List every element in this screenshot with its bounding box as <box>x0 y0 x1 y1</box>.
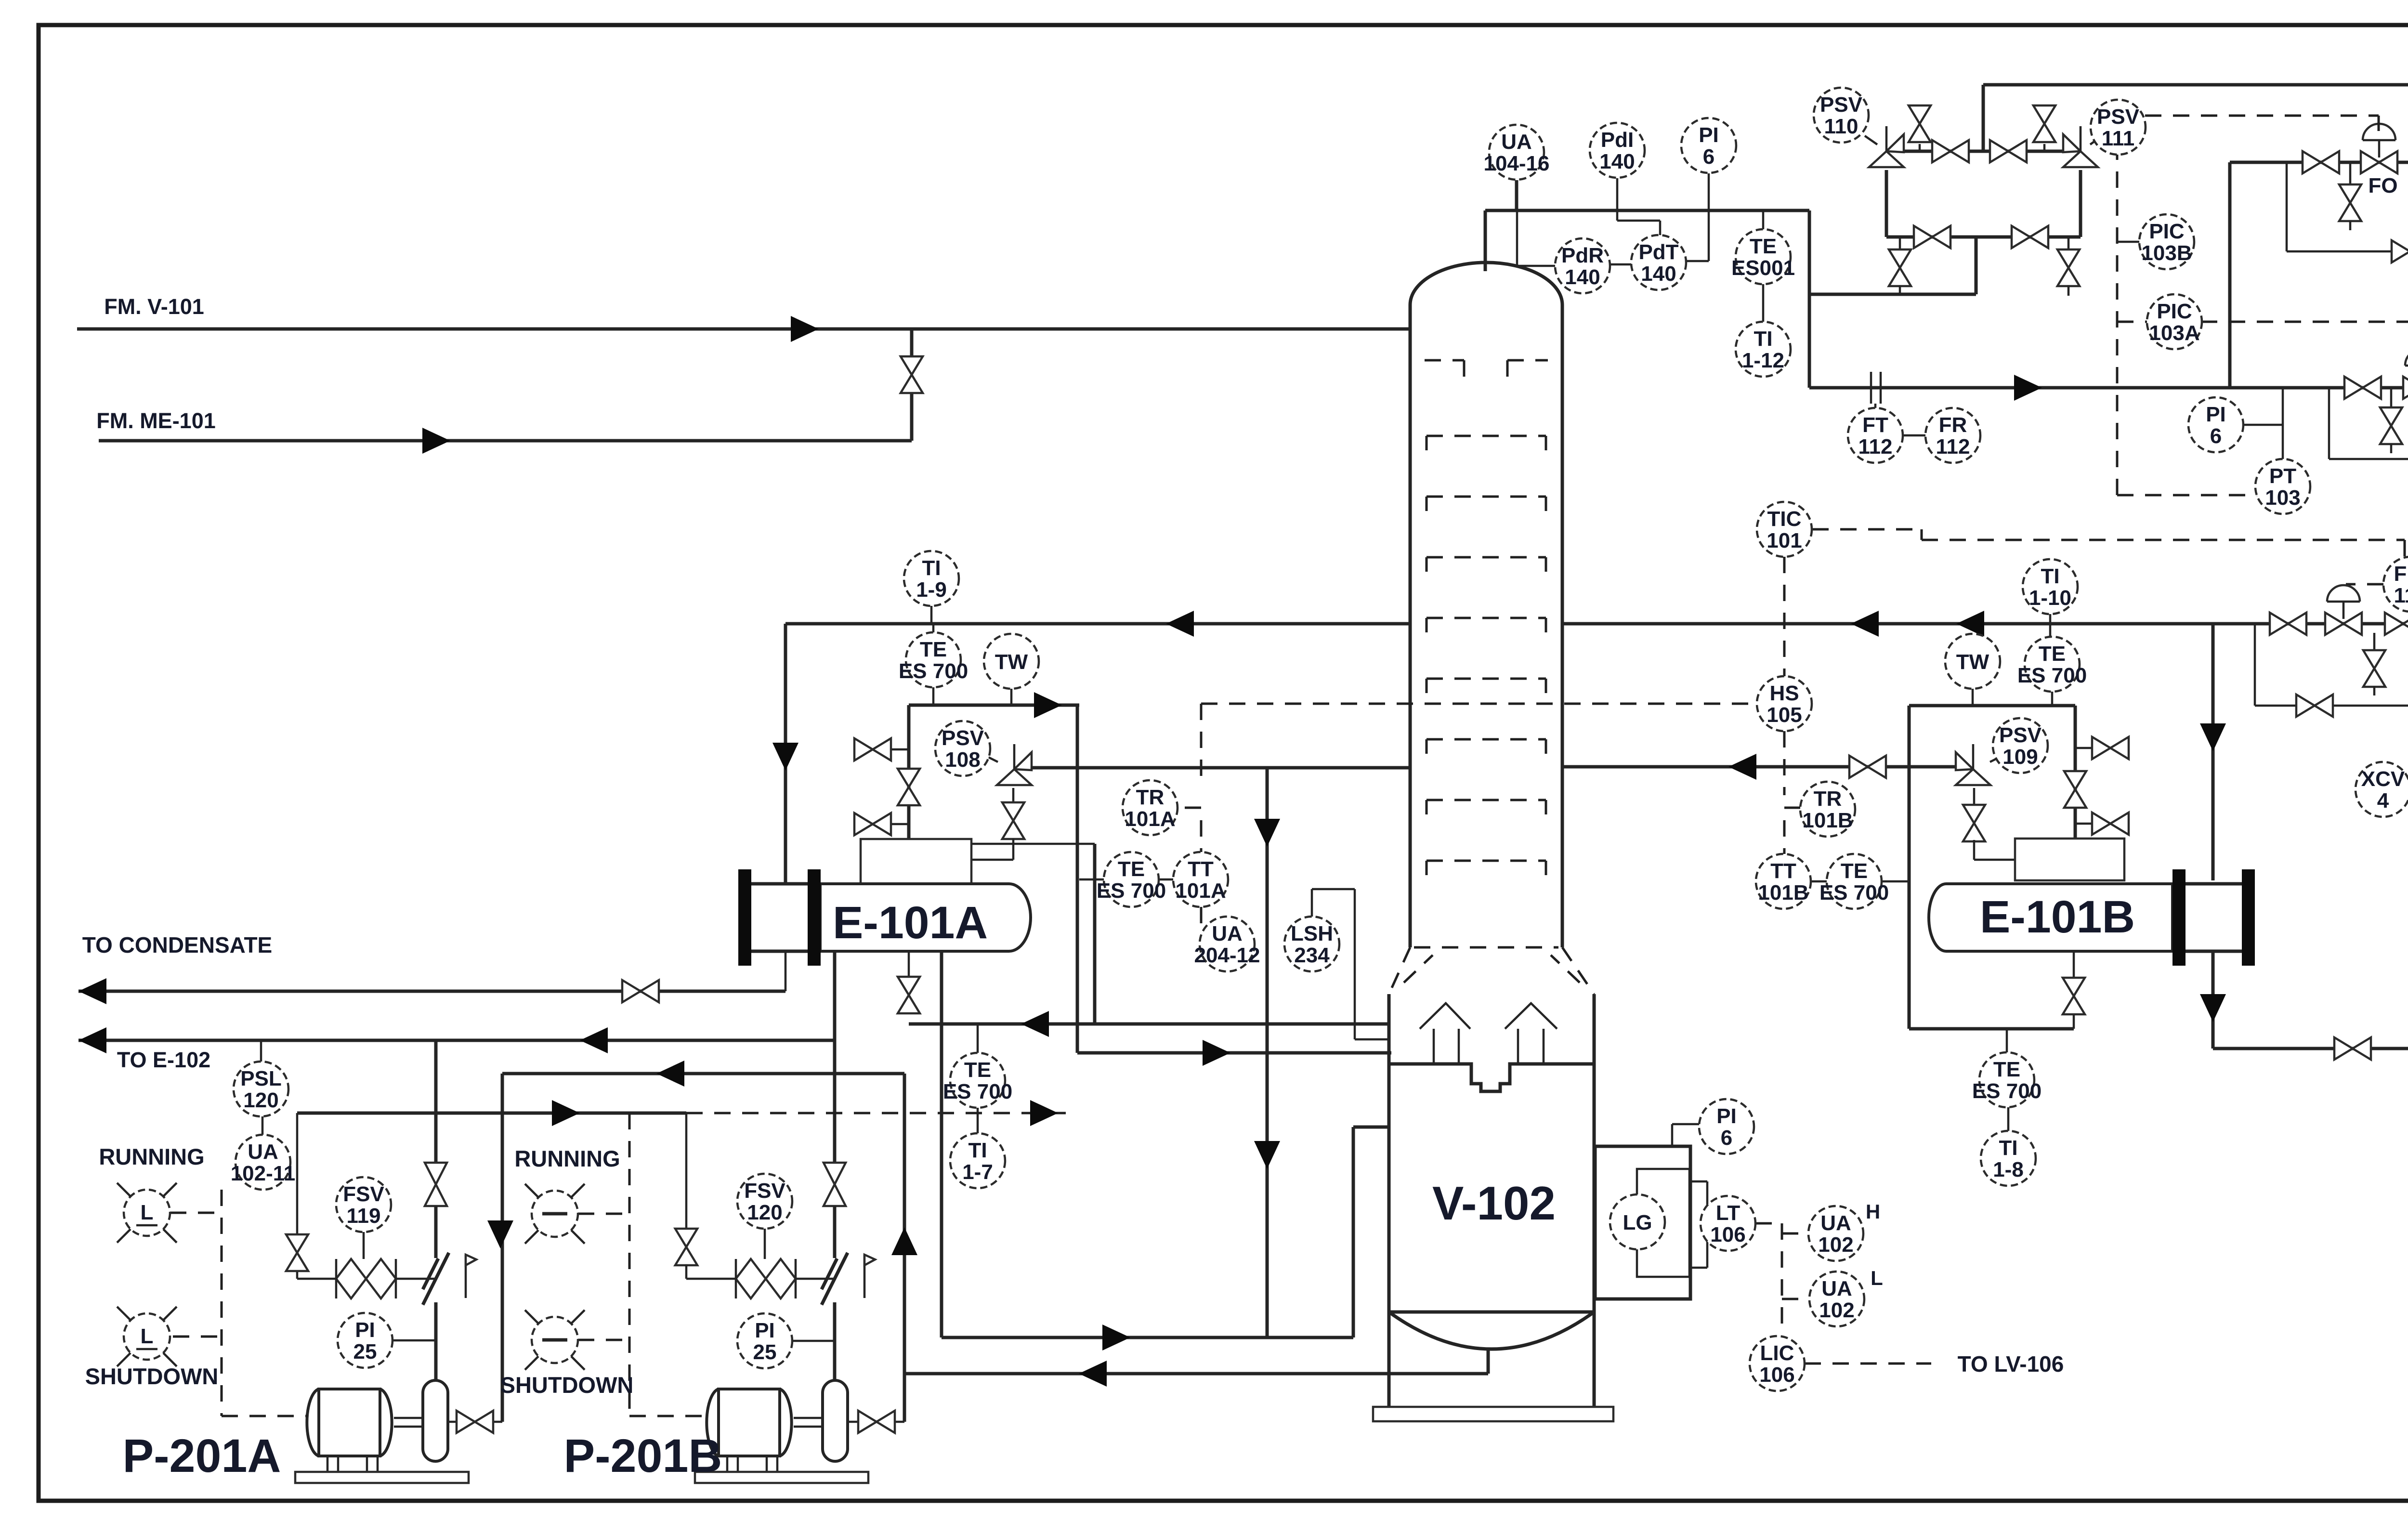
wire E-101A vapor drop <box>1093 844 1097 1024</box>
svg-text:110: 110 <box>1824 115 1858 138</box>
instrument UA 102 L <box>1809 1272 1864 1326</box>
instrument TIC 101 <box>1757 502 1812 557</box>
instrument PdT 140 <box>1631 235 1686 290</box>
wire FSV119 stub <box>363 1232 365 1259</box>
wire E-101A shell outlet drop <box>833 951 837 1040</box>
flow arrow discharge header <box>580 1027 608 1053</box>
svg-text:PSL: PSL <box>240 1067 282 1090</box>
wire P-201A discharge upper <box>434 1040 438 1163</box>
svg-text:TR: TR <box>1136 786 1165 809</box>
wire TE to loop right side <box>1882 880 1909 883</box>
wire suction header <box>502 1072 904 1075</box>
wire PI6 tap <box>2243 424 2283 426</box>
svg-text:PI: PI <box>1716 1104 1737 1128</box>
column tray 1 (dashed) <box>1426 436 1546 450</box>
wire E-101A channel condensate drop <box>785 951 787 991</box>
svg-text:1-10: 1-10 <box>2029 586 2071 610</box>
wire FSV120 run right <box>796 1278 835 1280</box>
wire E-101B loop top <box>1909 704 2075 708</box>
bypass valve FO <box>2392 240 2408 262</box>
wire FT112 stub <box>1874 404 1877 408</box>
control valve FO <box>2361 151 2397 173</box>
wire P-201B suction stub <box>849 1421 904 1423</box>
column V-102 bottom dish <box>1389 1312 1594 1349</box>
wire FIC vent tail <box>2373 686 2376 695</box>
wire PdI stub <box>1616 178 1619 221</box>
svg-text:TE: TE <box>964 1058 991 1082</box>
instrument PI 25 A <box>338 1313 393 1368</box>
wire E-101B loop right <box>2074 706 2077 839</box>
relief valve PSV-110 <box>1869 134 1904 167</box>
wire E-101B feed drop upper <box>2212 624 2215 880</box>
svg-text:102-11: 102-11 <box>231 1162 296 1185</box>
check valve P-201B <box>822 1253 848 1305</box>
suction valve P-201B <box>858 1411 895 1433</box>
instrument PIC 103B <box>2139 214 2194 269</box>
svg-text:ES 700: ES 700 <box>899 659 968 683</box>
svg-text:TE: TE <box>920 638 947 661</box>
wire PSV lower manifold <box>1886 236 2081 239</box>
wire P-201B suction drop <box>903 1074 906 1422</box>
flow arrow PSV108 drop 1 <box>1254 819 1280 847</box>
wire condensate line left <box>79 990 785 993</box>
svg-text:E-101B: E-101B <box>1980 892 2135 943</box>
control valve FO actuator <box>2363 124 2395 140</box>
wire TI1-10 stub <box>2049 614 2052 637</box>
valve FSV119 branch <box>286 1234 308 1271</box>
arrow to condensate left <box>79 978 106 1004</box>
svg-text:SHUTDOWN: SHUTDOWN <box>85 1364 219 1389</box>
svg-text:FIC: FIC <box>2394 562 2408 586</box>
instrument TE ES700 mid <box>1097 852 1166 907</box>
svg-text:ES 700: ES 700 <box>943 1080 1012 1103</box>
svg-text:LSH: LSH <box>1291 922 1333 945</box>
svg-text:106: 106 <box>1759 1363 1794 1387</box>
exchanger E-101A channel box <box>861 839 971 884</box>
vent valve E-101A 2 <box>854 813 891 835</box>
svg-text:PI: PI <box>355 1318 375 1342</box>
signal P-201A alarm wiring (dashed) <box>170 1190 308 1416</box>
instrument LIC 106 <box>1750 1336 1805 1391</box>
signal LIC output (dashed) <box>1805 1363 1931 1365</box>
wire reboiler return to column <box>1353 1126 1389 1129</box>
svg-text:HS: HS <box>1769 682 1799 705</box>
pump P-201B motor <box>707 1389 791 1456</box>
pump P-201B baseplate <box>695 1472 868 1483</box>
wire flare riser <box>1982 85 1985 151</box>
svg-text:FR: FR <box>1939 413 1967 437</box>
wire E-101A loop top <box>909 704 1079 707</box>
wire LSH top run <box>1312 888 1355 891</box>
signal HS105 line (dashed) <box>1178 704 1757 932</box>
block valve FIC upstream <box>2385 613 2408 635</box>
flow arrow suction header <box>656 1061 684 1087</box>
wire PSL120 stub <box>260 1040 262 1062</box>
pilot light P-201B running <box>525 1184 585 1244</box>
drain valve E-101B <box>2063 978 2085 1014</box>
wire E-101B vent stub 2 <box>2075 823 2094 825</box>
svg-text:108: 108 <box>945 748 980 772</box>
column V-102 seal pan <box>1389 1064 1594 1091</box>
svg-text:ES 700: ES 700 <box>1819 881 1889 905</box>
instrument TI 1-10 <box>2023 559 2078 614</box>
wire PSV109 outlet lower <box>1973 840 1976 860</box>
relief valve PSV-111 <box>2063 134 2098 167</box>
discharge valve P-201A <box>425 1163 447 1206</box>
wire FO vent tail <box>2349 221 2352 230</box>
wire FO bypass left <box>2286 162 2288 251</box>
wire LSH riser <box>1311 889 1313 917</box>
wire LSH to column <box>1355 1038 1389 1041</box>
svg-text:TI: TI <box>968 1139 987 1162</box>
wire TT101B-TE link <box>1811 880 1827 883</box>
svg-text:FM. V-101: FM. V-101 <box>104 294 204 319</box>
instrument TT 101A <box>1173 852 1228 907</box>
wire ME-101 riser <box>910 390 914 441</box>
wire P-201B discharge upper <box>833 1040 837 1163</box>
wire FM. ME-101 feed line <box>99 439 912 443</box>
svg-text:TO CONDENSATE: TO CONDENSATE <box>82 932 272 957</box>
svg-text:UA: UA <box>1212 922 1243 945</box>
exchanger E-101A shell <box>820 884 1031 951</box>
wire PdR-PdT link <box>1610 263 1631 266</box>
column V-102 overhead nozzle <box>1484 210 1487 271</box>
svg-text:1-8: 1-8 <box>1993 1158 2024 1181</box>
wire PSV drain stub 1 <box>1899 237 1901 250</box>
wire XCV leader <box>2408 771 2408 784</box>
control valve FC actuator <box>2405 349 2408 366</box>
drain valve PSV 2 <box>2057 249 2080 286</box>
block valve FO upstream <box>2303 151 2339 173</box>
flow arrow vapor to column right <box>1728 754 1756 780</box>
wire FIC bypass bottom <box>2255 705 2408 707</box>
pilot light P-201A shutdown <box>117 1307 177 1366</box>
svg-text:25: 25 <box>353 1340 377 1364</box>
svg-text:V-102: V-102 <box>1432 1177 1556 1230</box>
pump P-201B casing <box>823 1380 848 1461</box>
svg-text:103B: 103B <box>2141 241 2192 265</box>
wire E-101A vent stub 2 <box>890 823 909 826</box>
wire PSV drain tail 1 <box>1899 285 1901 296</box>
exchanger E-101B shell <box>1929 884 2172 951</box>
instrument UA 102 H <box>1808 1206 1863 1261</box>
svg-text:PT: PT <box>2269 464 2296 488</box>
instrument PI 25 B <box>737 1313 792 1368</box>
wire E-101A box outlet <box>971 843 1095 845</box>
column V-102 inlet distributor (dashed) <box>1425 360 1464 385</box>
vent valve E-101B 1 <box>2092 737 2129 759</box>
signal FIC110 output (dashed) <box>2346 584 2383 597</box>
wire FO vent stub <box>2349 162 2352 185</box>
svg-text:TO E-102: TO E-102 <box>117 1048 210 1072</box>
column tray 3 (dashed) <box>1426 557 1546 572</box>
block valve PSV lower 2 <box>2012 226 2048 248</box>
wire FIC vent stub <box>2373 633 2376 651</box>
svg-text:120: 120 <box>243 1088 278 1112</box>
wire reboiler return riser <box>1352 1127 1355 1337</box>
flow arrow recycle 1 <box>552 1100 580 1126</box>
instrument TI 1-8 <box>1981 1131 2036 1186</box>
svg-text:TE: TE <box>1993 1058 2020 1081</box>
wire TE stub right <box>2051 692 2054 706</box>
signal to PT103 (dashed) <box>2117 494 2257 497</box>
column tray 6 (dashed) <box>1426 739 1546 754</box>
vent valve E-101B 2 <box>2092 813 2129 835</box>
wire bottoms line <box>904 1372 1488 1376</box>
wire PSV108 to channel box <box>971 859 1013 861</box>
pilot light P-201A running <box>117 1183 177 1243</box>
svg-text:105: 105 <box>1767 703 1802 727</box>
block valve PSV upper 1 <box>1932 140 1969 162</box>
flow arrow product line <box>2014 375 2042 401</box>
wire E-101B loop left <box>1908 706 1911 1029</box>
wire E-101A feed drop <box>784 624 787 884</box>
column tray 8 (dashed) <box>1426 861 1546 875</box>
instrument PSV 110 <box>1814 88 1869 143</box>
svg-text:1-7: 1-7 <box>962 1160 993 1184</box>
instrument TR 101B <box>1800 782 1855 837</box>
valve condensate left <box>622 980 659 1002</box>
svg-text:TW: TW <box>995 650 1028 674</box>
instrument PSV 111 <box>2091 100 2146 155</box>
wire TE stub left <box>932 687 935 705</box>
svg-text:PI: PI <box>2206 403 2226 426</box>
wire product line to V-103 <box>1809 386 2408 390</box>
wire PSV111 leader <box>2090 136 2102 144</box>
wire PSV108 discharge drop <box>1266 768 1269 1337</box>
instrument FSV 119 <box>336 1177 391 1232</box>
svg-text:1-9: 1-9 <box>916 578 947 602</box>
instrument LT 106 <box>1701 1196 1755 1251</box>
flow arrow bottoms riser <box>891 1227 917 1255</box>
level bridle standpipe <box>1637 1169 1689 1277</box>
svg-text:LG: LG <box>1623 1211 1652 1234</box>
instrument TI 1-9 <box>904 551 959 606</box>
wire thermosiphon riser <box>940 951 943 1337</box>
wire P-201A discharge lower <box>434 1302 438 1380</box>
svg-text:TW: TW <box>1956 650 1989 674</box>
svg-text:TE: TE <box>1750 235 1777 258</box>
instrument UA 104-16 <box>1483 125 1549 180</box>
column V-102 lower shell <box>1389 994 1594 1407</box>
instrument TT 101B <box>1756 854 1811 909</box>
flow arrow reflux mid <box>1956 611 1984 637</box>
svg-text:LIC: LIC <box>1760 1341 1794 1365</box>
wire PSV111 inlet <box>2079 170 2082 237</box>
flow arrow E-101B condensate <box>2200 994 2226 1022</box>
wire FSV120 branch lower <box>685 1264 688 1279</box>
wire UA104 stub <box>1515 180 1518 210</box>
svg-text:TR: TR <box>1814 787 1842 811</box>
wire E-101B drain lower <box>2073 1014 2075 1029</box>
wire PSV drain stub 2 <box>2068 237 2070 250</box>
svg-text:101B: 101B <box>1758 881 1808 905</box>
wire FO valve line <box>2230 161 2408 164</box>
wire PdI-PdT jog <box>1617 220 1660 222</box>
svg-text:112: 112 <box>1858 435 1893 459</box>
valve on E-101A loop left <box>898 769 920 805</box>
svg-text:ES 700: ES 700 <box>2017 664 2087 687</box>
flow arrow on E-101A loop <box>1034 692 1062 718</box>
test valve left of PSV manifold <box>1909 105 1931 142</box>
wire FSV120 stub <box>764 1229 766 1259</box>
wire overhead header <box>1485 209 1809 212</box>
svg-text:106: 106 <box>1710 1223 1745 1246</box>
wire TE mid stub <box>1079 879 1104 881</box>
wire reflux line left <box>785 622 1410 626</box>
column V-102 upper shell <box>1410 262 1562 947</box>
flow arrow vapor to column <box>1203 1040 1230 1066</box>
instrument PSV 108 <box>935 721 990 776</box>
valve below PSV109 <box>1963 805 1985 841</box>
wire PSV110 test stub <box>1919 144 1921 151</box>
wire E-101A loop right / vapor riser <box>1076 705 1079 1053</box>
wire FC vent stub <box>2390 388 2393 408</box>
svg-text:TI: TI <box>1754 327 1772 351</box>
wire column bottom outlet stub <box>1487 1349 1490 1374</box>
drain valve E-101A <box>898 977 920 1013</box>
svg-text:PSV: PSV <box>1820 93 1863 117</box>
wire P-201A suction stub <box>447 1421 502 1423</box>
instrument PT 103 <box>2255 459 2310 514</box>
instrument TE ES700 left <box>899 632 968 687</box>
exchanger E-101B channel box <box>2015 839 2124 880</box>
svg-text:ES001: ES001 <box>1731 256 1795 280</box>
wire FM. V-101 feed line <box>77 328 1410 331</box>
column tray 5 (dashed) <box>1426 679 1546 693</box>
instrument PI 6 top <box>1681 118 1736 173</box>
svg-text:RUNNING: RUNNING <box>514 1146 620 1171</box>
wire TW stub left <box>1010 689 1013 705</box>
wire PSV108 drop <box>1012 788 1015 804</box>
wire E-101A vapor to column <box>1077 1051 1391 1055</box>
svg-text:FSV: FSV <box>744 1179 785 1203</box>
svg-text:L: L <box>1871 1267 1883 1289</box>
instrument XCV 4 <box>2356 762 2408 817</box>
vent valve under FC line <box>2380 407 2402 444</box>
signal TIC101 riser (dashed) <box>1784 557 1800 854</box>
exchanger E-101A tubesheet 2 <box>808 869 821 966</box>
exchanger E-101B tubesheet 1 <box>2172 869 2186 966</box>
svg-text:204-12: 204-12 <box>1194 944 1260 967</box>
svg-text:109: 109 <box>2002 745 2038 769</box>
flow arrow into E-101B <box>2200 723 2226 751</box>
wire FIC bypass left <box>2254 624 2256 706</box>
pump P-201B feet <box>727 1456 777 1472</box>
wire E-101A loop left <box>907 705 911 839</box>
column V-102 base plate <box>1373 1407 1613 1421</box>
wire reboiler return bottom <box>942 1336 1353 1339</box>
wire E-101B condensate drop <box>2212 953 2215 1049</box>
instrument TE ES700 right <box>2017 637 2087 692</box>
svg-text:XCV: XCV <box>2361 767 2405 791</box>
svg-text:SHUTDOWN: SHUTDOWN <box>500 1372 634 1398</box>
wire TE-TI1-7 link <box>977 1108 979 1133</box>
svg-text:111: 111 <box>2102 127 2135 150</box>
svg-text:TIC: TIC <box>1767 507 1802 531</box>
svg-text:TO LV-106: TO LV-106 <box>1958 1351 2064 1377</box>
wire FT112-FR112 link <box>1903 434 1925 437</box>
wire PSV108 outlet line <box>1031 766 1410 770</box>
pump P-201A baseplate <box>295 1472 469 1483</box>
wire TE stub bottom right <box>2006 1029 2008 1052</box>
instrument TE ES700 bottomright <box>1972 1052 2042 1107</box>
discharge valve P-201B <box>824 1163 846 1206</box>
pump P-201A shaft <box>394 1418 423 1427</box>
svg-text:101A: 101A <box>1125 807 1175 831</box>
instrument FSV 120 <box>737 1174 792 1229</box>
svg-text:102: 102 <box>1819 1298 1854 1322</box>
instrument PI 6 right <box>2188 397 2243 452</box>
wire FO bypass bottom <box>2287 250 2408 253</box>
wire recycle line solid <box>297 1112 686 1115</box>
instrument LG <box>1610 1194 1665 1249</box>
svg-text:UA: UA <box>1501 130 1532 154</box>
instrument TR 101A <box>1123 780 1178 835</box>
svg-text:PSV: PSV <box>1999 723 2042 747</box>
wire PdR connector <box>1517 265 1556 267</box>
wire P-201B discharge mid <box>833 1206 837 1258</box>
level bridle frame <box>1595 1146 1690 1299</box>
LT bracket <box>1690 1181 1707 1268</box>
instrument FR 112 <box>1925 408 1980 463</box>
wire PI25B stub <box>792 1340 835 1342</box>
block valve PSV upper 2 <box>1990 140 2027 162</box>
PI6 bottom tap <box>1672 1124 1699 1146</box>
control valve FC <box>2403 377 2408 399</box>
instrument PSL 120 <box>234 1062 288 1116</box>
svg-text:FT: FT <box>1862 413 1888 437</box>
svg-text:TE: TE <box>1118 857 1145 881</box>
svg-text:ES 700: ES 700 <box>1972 1079 2042 1103</box>
svg-text:PdR: PdR <box>1561 244 1604 267</box>
wire PdT top stub <box>1659 221 1662 236</box>
valve FSV120 branch <box>675 1229 697 1265</box>
wire PSV inlet branch horizontal <box>1809 293 1976 296</box>
wire PSV110 inlet <box>1885 170 1888 237</box>
wire P-201B discharge lower <box>833 1302 837 1380</box>
control valve FV-110 actuator <box>2327 585 2360 602</box>
signal PIC103A to FC (dashed) <box>2117 322 2408 352</box>
svg-text:119: 119 <box>347 1204 381 1228</box>
exchanger E-101A tubesheet 1 <box>738 869 751 966</box>
svg-text:UA: UA <box>1821 1277 1852 1300</box>
svg-text:PIC: PIC <box>2149 220 2184 243</box>
wire E-101A shell drain <box>908 951 910 976</box>
wire overhead riser <box>1808 210 1811 388</box>
control valve FV-110 <box>2325 613 2362 635</box>
wire PSV109 leader <box>1990 757 2000 762</box>
svg-text:LT: LT <box>1716 1201 1741 1225</box>
instrument PdR 140 <box>1555 238 1610 293</box>
wire FSV120 run left <box>686 1278 736 1280</box>
svg-text:PI: PI <box>755 1319 775 1342</box>
wire E-101B drain manifold <box>1909 1027 2074 1031</box>
svg-text:PI: PI <box>1699 123 1719 147</box>
wire PT103 branch <box>2282 388 2284 459</box>
column tray 4 (dashed) <box>1426 618 1546 632</box>
vent valve under FIC valve <box>2363 650 2385 687</box>
instrument UA 102-11 <box>231 1135 296 1190</box>
exchanger E-101B channel <box>2186 884 2242 951</box>
flow arrow on FM. ME-101 line <box>422 428 450 454</box>
svg-text:101B: 101B <box>1802 809 1853 832</box>
wire TE-TT101A link <box>1159 879 1173 881</box>
svg-text:1-12: 1-12 <box>1742 349 1784 372</box>
wire PSV108 leader <box>988 757 998 762</box>
svg-text:ES 700: ES 700 <box>1097 879 1166 903</box>
svg-text:FSV: FSV <box>343 1182 384 1206</box>
